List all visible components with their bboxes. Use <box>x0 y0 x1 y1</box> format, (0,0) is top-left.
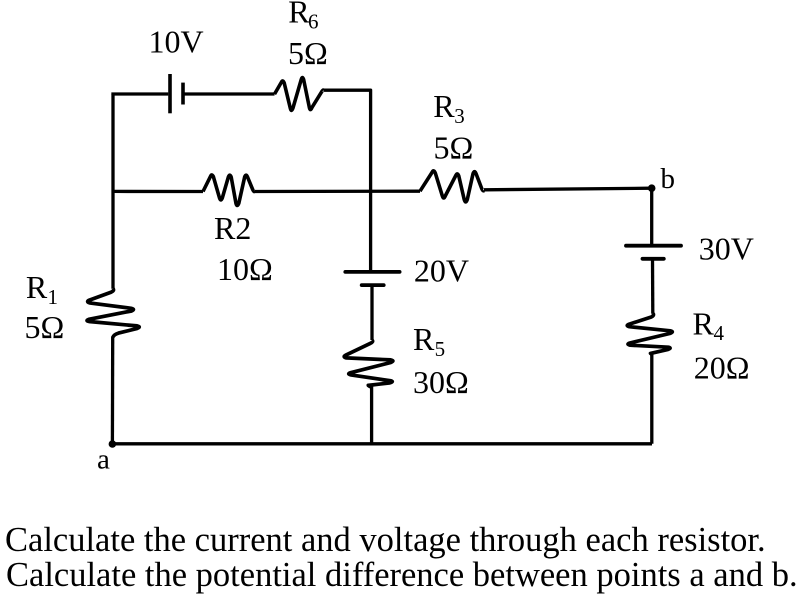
svg-text:30V: 30V <box>699 231 754 267</box>
svg-text:Calculate the current and volt: Calculate the current and voltage throug… <box>5 521 766 559</box>
svg-text:4: 4 <box>714 321 725 345</box>
svg-text:R: R <box>26 269 48 305</box>
svg-text:5: 5 <box>435 337 446 361</box>
svg-text:1: 1 <box>48 285 59 309</box>
svg-text:10V: 10V <box>149 24 204 60</box>
svg-text:a: a <box>97 444 110 476</box>
svg-text:R: R <box>693 306 715 342</box>
svg-text:5Ω: 5Ω <box>288 35 328 71</box>
svg-text:R: R <box>433 88 455 124</box>
svg-text:R: R <box>413 321 435 357</box>
svg-text:b: b <box>661 163 676 195</box>
svg-text:10Ω: 10Ω <box>217 251 273 287</box>
svg-text:R: R <box>288 0 310 29</box>
svg-text:20V: 20V <box>414 253 469 289</box>
svg-text:R2: R2 <box>214 210 251 246</box>
svg-text:3: 3 <box>454 104 465 128</box>
svg-text:20Ω: 20Ω <box>694 350 750 386</box>
svg-text:30Ω: 30Ω <box>413 364 469 400</box>
svg-text:5Ω: 5Ω <box>434 130 474 166</box>
svg-text:5Ω: 5Ω <box>25 309 65 345</box>
svg-text:6: 6 <box>308 9 319 33</box>
svg-text:Calculate the potential differ: Calculate the potential difference betwe… <box>6 556 798 594</box>
